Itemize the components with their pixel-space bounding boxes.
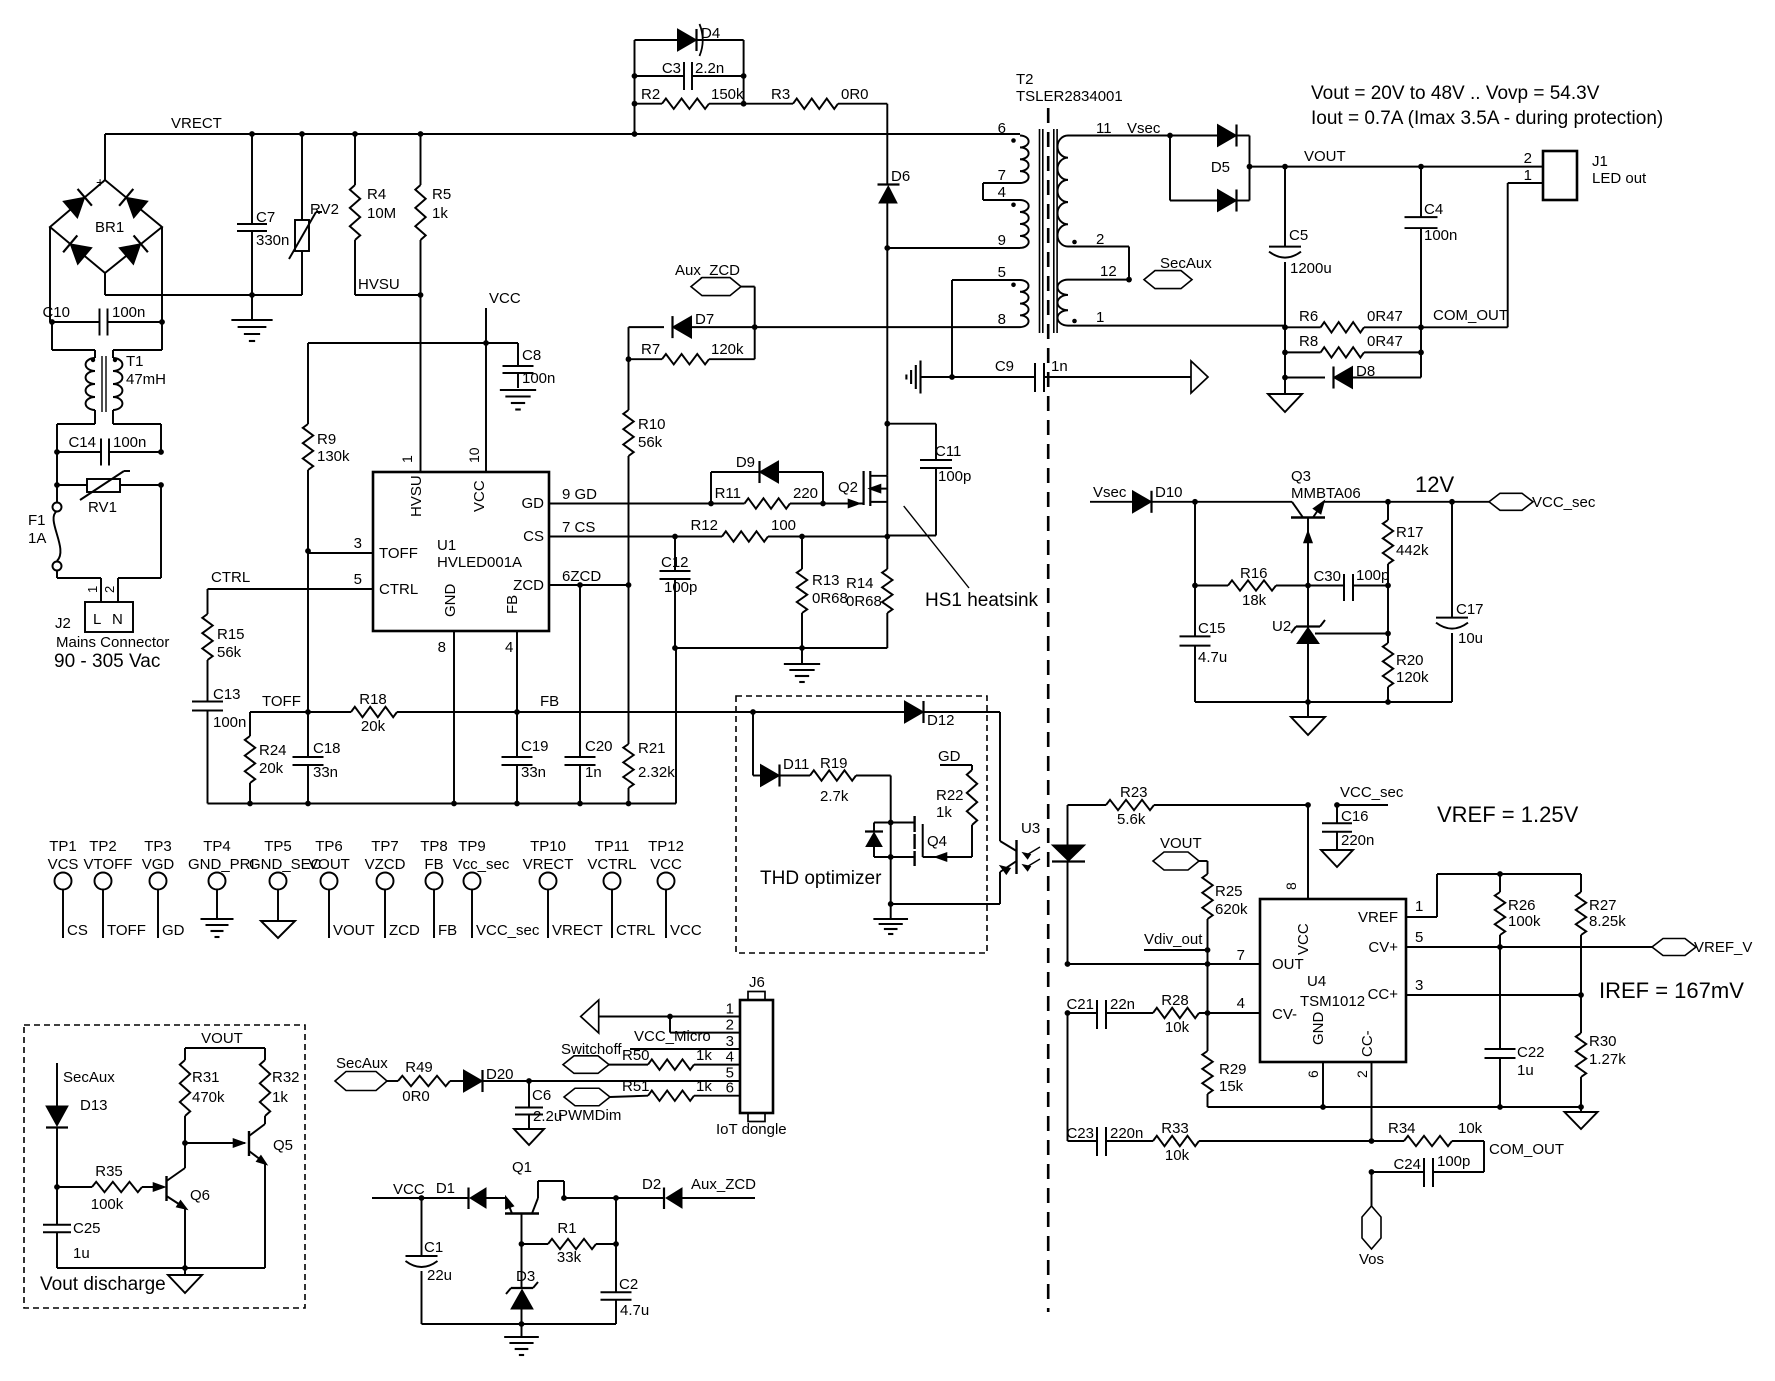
- svg-text:120k: 120k: [711, 341, 744, 358]
- svg-text:SecAux: SecAux: [336, 1055, 388, 1072]
- svg-text:22u: 22u: [427, 1267, 452, 1284]
- svg-text:Vsec: Vsec: [1127, 120, 1161, 137]
- resistor R33: [1153, 1120, 1374, 1164]
- svg-text:L: L: [93, 611, 101, 628]
- svg-text:C11: C11: [935, 443, 961, 460]
- svg-text:C3: C3: [662, 60, 681, 77]
- diode D9: [711, 454, 823, 504]
- svg-text:1: 1: [1096, 309, 1104, 326]
- svg-text:C17: C17: [1456, 601, 1484, 618]
- svg-text:D12: D12: [927, 712, 955, 729]
- transistor Q6 NPN: [167, 1168, 211, 1268]
- svg-text:33k: 33k: [557, 1249, 582, 1266]
- capacitor C25: [43, 1187, 101, 1268]
- svg-text:15k: 15k: [1219, 1078, 1244, 1095]
- svg-text:90 - 305 Vac: 90 - 305 Vac: [54, 651, 160, 672]
- svg-text:RV1: RV1: [88, 499, 117, 516]
- svg-text:C4: C4: [1424, 201, 1443, 218]
- resistor R25: [1202, 874, 1248, 953]
- svg-text:R15: R15: [217, 626, 245, 643]
- zener U2: [1272, 586, 1325, 703]
- svg-text:Aux_ZCD: Aux_ZCD: [675, 262, 740, 279]
- svg-text:100k: 100k: [1508, 913, 1541, 930]
- wire OUT net: [1068, 963, 1261, 965]
- wire FB pin4: [505, 631, 517, 712]
- svg-text:Q6: Q6: [190, 1187, 210, 1204]
- svg-text:CV+: CV+: [1368, 939, 1398, 956]
- svg-text:FB: FB: [424, 856, 443, 873]
- svg-text:CTRL: CTRL: [211, 569, 250, 586]
- svg-text:R8: R8: [1299, 333, 1318, 350]
- resistor R21: [623, 585, 675, 804]
- svg-text:D5: D5: [1211, 159, 1230, 176]
- svg-text:TP7: TP7: [371, 838, 399, 855]
- wire clamp vertical: [886, 104, 888, 185]
- transistor Q2 MOSFET: [838, 471, 887, 536]
- connector J6 IoT dongle: [716, 974, 787, 1138]
- svg-text:120k: 120k: [1396, 669, 1429, 686]
- capacitor C9: [949, 358, 1191, 392]
- svg-text:9 GD: 9 GD: [562, 486, 597, 503]
- diode D13: [46, 1097, 108, 1190]
- svg-text:1u: 1u: [73, 1245, 90, 1262]
- svg-text:2: 2: [1096, 231, 1104, 248]
- svg-text:7: 7: [1237, 947, 1245, 964]
- svg-text:T2: T2: [1016, 71, 1034, 88]
- svg-text:U1: U1: [437, 537, 456, 554]
- svg-text:1: 1: [399, 455, 415, 463]
- svg-text:Q2: Q2: [838, 479, 858, 496]
- svg-text:PWMDim: PWMDim: [558, 1107, 621, 1124]
- ground sense: [784, 648, 820, 682]
- svg-text:R50: R50: [622, 1047, 650, 1064]
- ground C9: [906, 361, 952, 394]
- svg-text:9: 9: [998, 232, 1006, 249]
- svg-text:D10: D10: [1155, 484, 1183, 501]
- svg-text:R28: R28: [1161, 992, 1189, 1009]
- svg-text:TOFF: TOFF: [379, 545, 418, 562]
- resistor R14: [846, 537, 893, 649]
- label IREF: [1599, 978, 1744, 1003]
- svg-text:C20: C20: [585, 738, 613, 755]
- test point TP12 VCC: [648, 838, 702, 939]
- wire CS net: [549, 519, 675, 537]
- svg-text:HVSU: HVSU: [408, 475, 425, 517]
- svg-text:1k: 1k: [272, 1089, 288, 1106]
- svg-text:1k: 1k: [936, 804, 952, 821]
- svg-text:12V: 12V: [1415, 472, 1454, 497]
- wire TOFF row: [250, 693, 351, 715]
- svg-text:2: 2: [1354, 1070, 1370, 1078]
- svg-text:100k: 100k: [91, 1196, 124, 1213]
- node VRECT junctions: [249, 131, 637, 137]
- svg-text:VREF = 1.25V: VREF = 1.25V: [1437, 802, 1579, 827]
- svg-text:C1: C1: [424, 1239, 443, 1256]
- svg-text:CS: CS: [523, 528, 544, 545]
- svg-text:GND_PRI: GND_PRI: [188, 856, 255, 873]
- svg-text:R29: R29: [1219, 1061, 1247, 1078]
- svg-text:C12: C12: [661, 554, 689, 571]
- diode D11: [753, 712, 810, 787]
- svg-text:D3: D3: [516, 1268, 535, 1285]
- annotation Vout/Iout: [1311, 83, 1663, 129]
- svg-text:CTRL: CTRL: [616, 922, 655, 939]
- wire Q1 collector row: [564, 1195, 619, 1201]
- svg-text:FB: FB: [504, 595, 521, 614]
- svg-text:18k: 18k: [1242, 592, 1267, 609]
- svg-text:C18: C18: [313, 740, 341, 757]
- wire pin2 to SecAux: [1068, 247, 1132, 283]
- svg-text:R49: R49: [405, 1059, 433, 1076]
- svg-text:100p: 100p: [938, 468, 971, 485]
- svg-text:VCC: VCC: [650, 856, 682, 873]
- svg-text:20k: 20k: [361, 718, 386, 735]
- svg-text:OUT: OUT: [1272, 956, 1304, 973]
- wire CTRL net: [208, 569, 251, 614]
- transistor Q1: [505, 1159, 567, 1247]
- dashed box Vout discharge: [24, 1025, 305, 1308]
- svg-text:D8: D8: [1356, 363, 1375, 380]
- svg-text:CTRL: CTRL: [379, 581, 418, 598]
- ground discharge: [168, 1268, 202, 1293]
- svg-text:4: 4: [1237, 995, 1245, 1012]
- diode D5 (dual): [1170, 124, 1252, 211]
- net flag PWMDim: [558, 1088, 648, 1124]
- test point TP8 FB: [420, 838, 457, 939]
- resistor R17: [1383, 502, 1429, 586]
- svg-text:C9: C9: [995, 358, 1014, 375]
- svg-text:VGD: VGD: [142, 856, 175, 873]
- svg-text:VREF: VREF: [1358, 909, 1398, 926]
- transistor Q5 NPN: [249, 1124, 293, 1268]
- net flag Vos: [1359, 1172, 1384, 1268]
- svg-text:TSLER2834001: TSLER2834001: [1016, 88, 1123, 105]
- svg-text:6ZCD: 6ZCD: [562, 568, 601, 585]
- svg-text:33n: 33n: [521, 764, 546, 781]
- wire secondary return: [1068, 325, 1285, 327]
- ground (primary) at C7: [231, 295, 272, 341]
- resistor R9: [303, 343, 350, 551]
- wire TOFF pin: [305, 535, 373, 554]
- svg-text:Iout = 0.7A (Imax 3.5A - duri: Iout = 0.7A (Imax 3.5A - during protecti…: [1311, 108, 1663, 129]
- svg-text:8: 8: [438, 639, 446, 656]
- resistor R27: [1576, 874, 1626, 995]
- transformer T2 TSLER2834001: [1016, 71, 1123, 333]
- resistor R30: [1576, 995, 1626, 1107]
- svg-text:12: 12: [1100, 263, 1117, 280]
- svg-text:R17: R17: [1396, 524, 1424, 541]
- varistor RV1: [54, 471, 164, 516]
- svg-text:10: 10: [466, 447, 482, 463]
- svg-text:1n: 1n: [585, 764, 602, 781]
- ground THD: [873, 901, 908, 934]
- resistor R16: [1192, 502, 1311, 609]
- resistor R26: [1495, 874, 1541, 947]
- svg-text:C7: C7: [256, 209, 275, 226]
- dashed separator: [1047, 108, 1050, 1312]
- svg-text:Mains Connector: Mains Connector: [56, 634, 169, 651]
- svg-text:R1: R1: [557, 1220, 576, 1237]
- optocoupler U3 LED: [1052, 805, 1085, 967]
- svg-text:C30: C30: [1313, 568, 1341, 585]
- ground at C8: [500, 390, 536, 410]
- wire VOUT (discharge): [185, 1030, 265, 1060]
- svg-text:MMBTA06: MMBTA06: [1291, 485, 1361, 502]
- wire VOUT net: [1250, 148, 1544, 170]
- net flag VREF_V: [1652, 939, 1752, 957]
- svg-text:R22: R22: [936, 787, 964, 804]
- svg-text:R12: R12: [690, 517, 718, 534]
- test point TP5 GND_SEC: [249, 838, 322, 938]
- winding T2 primary 4-9: [998, 200, 1029, 249]
- diode D20: [464, 1066, 532, 1092]
- SecAux stub: [57, 1063, 115, 1106]
- capacitor C17 10u: [1436, 502, 1484, 702]
- svg-text:GD: GD: [162, 922, 185, 939]
- wire VREF pin1: [1406, 871, 1581, 917]
- resistor R49: [398, 1059, 464, 1105]
- svg-text:C8: C8: [522, 347, 541, 364]
- svg-text:D1: D1: [436, 1180, 455, 1197]
- svg-text:C5: C5: [1289, 227, 1308, 244]
- svg-text:TP9: TP9: [458, 838, 486, 855]
- svg-text:220n: 220n: [1341, 832, 1374, 849]
- svg-text:GND: GND: [442, 584, 459, 618]
- svg-text:Vsec: Vsec: [1093, 484, 1127, 501]
- svg-text:U4: U4: [1307, 973, 1326, 990]
- test point TP4 GND_PRI: [188, 838, 255, 937]
- svg-text:5: 5: [1415, 929, 1423, 946]
- svg-text:1u: 1u: [1517, 1062, 1534, 1079]
- svg-text:3: 3: [354, 535, 362, 552]
- wire Vdiv vertical: [1207, 964, 1209, 1013]
- resistor R11: [708, 485, 826, 509]
- svg-text:10k: 10k: [1458, 1120, 1483, 1137]
- svg-text:100n: 100n: [113, 434, 146, 451]
- capacitor C20: [565, 585, 613, 804]
- svg-text:C22: C22: [1517, 1044, 1545, 1061]
- svg-text:1: 1: [1415, 898, 1423, 915]
- svg-text:R9: R9: [317, 431, 336, 448]
- svg-text:J6: J6: [749, 974, 765, 991]
- wire Vdiv_out: [1144, 931, 1210, 967]
- svg-text:R34: R34: [1388, 1120, 1416, 1137]
- resistor R50: [622, 1047, 740, 1070]
- svg-text:R21: R21: [638, 740, 666, 757]
- svg-text:5: 5: [354, 571, 362, 588]
- svg-text:D9: D9: [736, 454, 755, 471]
- wire J1 pin1 to COM_OUT: [1421, 183, 1543, 327]
- svg-text:Q3: Q3: [1291, 468, 1311, 485]
- svg-text:ZCD: ZCD: [513, 577, 544, 594]
- svg-text:1n: 1n: [1051, 358, 1068, 375]
- svg-text:GD: GD: [938, 748, 961, 765]
- svg-text:R14: R14: [846, 575, 874, 592]
- svg-text:D13: D13: [80, 1097, 108, 1114]
- svg-text:RV2: RV2: [310, 201, 339, 218]
- capacitor C19: [502, 712, 549, 804]
- resistor R19: [810, 755, 891, 805]
- svg-text:TP4: TP4: [203, 838, 231, 855]
- svg-text:U2: U2: [1272, 618, 1291, 635]
- svg-text:CV-: CV-: [1272, 1006, 1297, 1023]
- dashed box THD: [736, 696, 987, 953]
- capacitor C30: [1308, 567, 1391, 601]
- svg-text:R2: R2: [641, 86, 660, 103]
- svg-text:VCC: VCC: [393, 1181, 425, 1198]
- svg-text:VTOFF: VTOFF: [84, 856, 133, 873]
- winding T2 secondary 11-2: [1058, 120, 1173, 248]
- net flag Switchoff: [561, 1041, 648, 1073]
- svg-text:R26: R26: [1508, 897, 1536, 914]
- svg-text:2.7k: 2.7k: [820, 788, 849, 805]
- IC U4 TSM1012: [1237, 882, 1424, 1078]
- svg-text:VCC: VCC: [1295, 923, 1312, 955]
- svg-text:3: 3: [726, 1033, 734, 1050]
- resistor R23: [1068, 784, 1404, 828]
- svg-text:CC+: CC+: [1368, 986, 1399, 1003]
- svg-text:J2: J2: [55, 615, 71, 632]
- resistor R3: [744, 86, 888, 109]
- svg-text:IREF = 167mV: IREF = 167mV: [1599, 978, 1744, 1003]
- ground C16: [1321, 850, 1353, 867]
- svg-text:33n: 33n: [313, 764, 338, 781]
- svg-text:6: 6: [726, 1080, 734, 1097]
- svg-text:5.6k: 5.6k: [1117, 811, 1146, 828]
- fuse F1 1A: [28, 452, 62, 571]
- ground 12V: [1291, 702, 1325, 735]
- wire bridge negative: [105, 273, 302, 298]
- svg-text:R10: R10: [638, 416, 666, 433]
- diode D7: [629, 311, 758, 338]
- svg-text:FB: FB: [540, 693, 559, 710]
- svg-text:R16: R16: [1240, 565, 1268, 582]
- svg-text:10u: 10u: [1458, 630, 1483, 647]
- net flag Aux_ZCD: [675, 262, 755, 327]
- svg-text:FB: FB: [438, 922, 457, 939]
- wire HS1 pointer: [904, 506, 969, 588]
- test point TP1 VCS: [48, 838, 88, 939]
- svg-text:Vdiv_out: Vdiv_out: [1144, 931, 1203, 948]
- diode D4: [635, 24, 744, 134]
- wire CV+ pin5 row: [1406, 944, 1652, 950]
- connector J1 LED out: [1524, 150, 1647, 200]
- wire drain net vertical: [884, 245, 1020, 476]
- capacitor C6: [515, 1081, 562, 1129]
- IC U1 HVLED001A: [373, 447, 549, 631]
- svg-text:Q5: Q5: [273, 1137, 293, 1154]
- svg-text:ZCD: ZCD: [389, 922, 420, 939]
- svg-text:330n: 330n: [256, 232, 289, 249]
- transistor Q3 MMBTA06: [1291, 468, 1361, 586]
- svg-text:C6: C6: [532, 1087, 551, 1104]
- svg-text:0R68: 0R68: [812, 590, 848, 607]
- wire CTRL pin: [208, 571, 374, 589]
- diode D12: [905, 701, 1001, 729]
- wire HVSU net: [355, 276, 423, 472]
- resistor R22: [936, 748, 977, 825]
- wire CS right: [802, 534, 890, 540]
- svg-text:11: 11: [1096, 120, 1112, 137]
- resistor R13: [797, 537, 848, 649]
- svg-text:D7: D7: [695, 311, 714, 328]
- resistor R15: [202, 614, 244, 701]
- svg-text:5: 5: [998, 264, 1006, 281]
- wire VCC (Q1 region): [372, 1181, 468, 1201]
- svg-text:TOFF: TOFF: [107, 922, 146, 939]
- svg-text:100n: 100n: [213, 714, 246, 731]
- svg-text:N: N: [112, 611, 123, 628]
- wire U4 GND pin6 / CC- pin2: [1323, 1062, 1372, 1141]
- resistor R34: [1372, 1120, 1565, 1158]
- svg-text:R25: R25: [1215, 883, 1243, 900]
- svg-text:56k: 56k: [638, 434, 663, 451]
- resistor R4: [350, 134, 396, 295]
- wire GND pin8: [438, 631, 454, 804]
- net flag SecAux (dongle): [335, 1055, 398, 1091]
- resistor R18: [351, 691, 397, 735]
- svg-text:TP12: TP12: [648, 838, 684, 855]
- diode D1: [436, 1180, 506, 1209]
- resistor R2: [632, 86, 747, 109]
- svg-text:2: 2: [726, 1017, 734, 1034]
- svg-text:HVLED001A: HVLED001A: [437, 554, 522, 571]
- svg-text:COM_OUT: COM_OUT: [1433, 307, 1508, 324]
- svg-text:R35: R35: [95, 1163, 123, 1180]
- svg-text:8.25k: 8.25k: [1589, 913, 1626, 930]
- svg-text:R24: R24: [259, 742, 287, 759]
- wire GD net: [549, 486, 711, 504]
- resistor R28: [1153, 992, 1260, 1036]
- transistor Q4 with body diode: [865, 776, 972, 905]
- wire VCC_Micro: [630, 1028, 740, 1049]
- capacitor C8: [503, 343, 556, 388]
- net flag VCC_sec (12V): [1489, 493, 1596, 511]
- svg-text:R5: R5: [432, 186, 451, 203]
- resistor R35: [57, 1163, 165, 1213]
- test point TP6 VOUT: [308, 838, 375, 939]
- svg-text:220n: 220n: [1110, 1125, 1143, 1142]
- svg-text:1: 1: [85, 586, 100, 593]
- svg-text:U3: U3: [1021, 820, 1040, 837]
- svg-text:VOUT: VOUT: [1304, 148, 1346, 165]
- wire primary ground rail: [208, 648, 677, 806]
- svg-text:D20: D20: [486, 1066, 514, 1083]
- winding T2 aux 5-8: [952, 264, 1029, 377]
- svg-text:VOUT: VOUT: [1160, 835, 1202, 852]
- capacitor C22: [1485, 947, 1545, 1107]
- svg-text:VRECT: VRECT: [171, 115, 222, 132]
- svg-text:100: 100: [771, 517, 796, 534]
- svg-text:1k: 1k: [696, 1078, 712, 1095]
- wire VCC gnd rail: [422, 1323, 617, 1325]
- svg-text:56k: 56k: [217, 644, 242, 661]
- svg-text:1: 1: [1524, 167, 1532, 184]
- svg-text:VCC: VCC: [670, 922, 702, 939]
- svg-text:470k: 470k: [192, 1089, 225, 1106]
- svg-text:TP8: TP8: [420, 838, 448, 855]
- svg-text:HVSU: HVSU: [358, 276, 400, 293]
- svg-text:2: 2: [102, 586, 117, 593]
- capacitor C1 22u: [406, 1198, 453, 1324]
- svg-text:D11: D11: [783, 756, 809, 773]
- svg-text:VOUT: VOUT: [308, 856, 350, 873]
- svg-text:10k: 10k: [1165, 1147, 1190, 1164]
- label HS1: [925, 590, 1039, 611]
- svg-text:R3: R3: [771, 86, 790, 103]
- svg-text:VRECT: VRECT: [523, 856, 574, 873]
- svg-text:F1: F1: [28, 512, 46, 529]
